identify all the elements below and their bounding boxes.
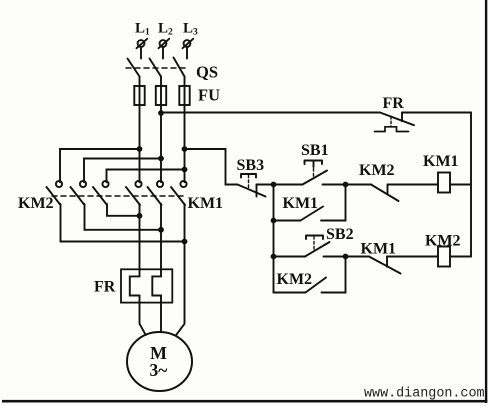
svg-text:3~: 3~: [150, 360, 168, 380]
svg-text:KM1: KM1: [361, 241, 397, 258]
svg-text:L3: L3: [183, 21, 198, 38]
svg-text:SB1: SB1: [301, 142, 329, 159]
svg-text:L1: L1: [135, 21, 150, 38]
svg-text:FR: FR: [383, 95, 405, 112]
svg-text:KM2: KM2: [359, 162, 395, 179]
svg-text:KM1: KM1: [423, 153, 459, 170]
svg-text:SB2: SB2: [326, 226, 354, 243]
svg-text:KM2: KM2: [18, 195, 54, 212]
svg-text:KM1: KM1: [188, 195, 224, 212]
svg-text:KM2: KM2: [277, 271, 313, 288]
svg-text:QS: QS: [196, 63, 218, 82]
svg-text:FU: FU: [198, 86, 220, 105]
svg-text:www.diangon.com: www.diangon.com: [364, 387, 485, 402]
svg-text:FR: FR: [94, 278, 116, 295]
svg-text:L2: L2: [158, 21, 173, 38]
svg-text:SB3: SB3: [237, 157, 265, 174]
svg-text:KM1: KM1: [283, 195, 319, 212]
svg-text:KM2: KM2: [425, 233, 461, 250]
